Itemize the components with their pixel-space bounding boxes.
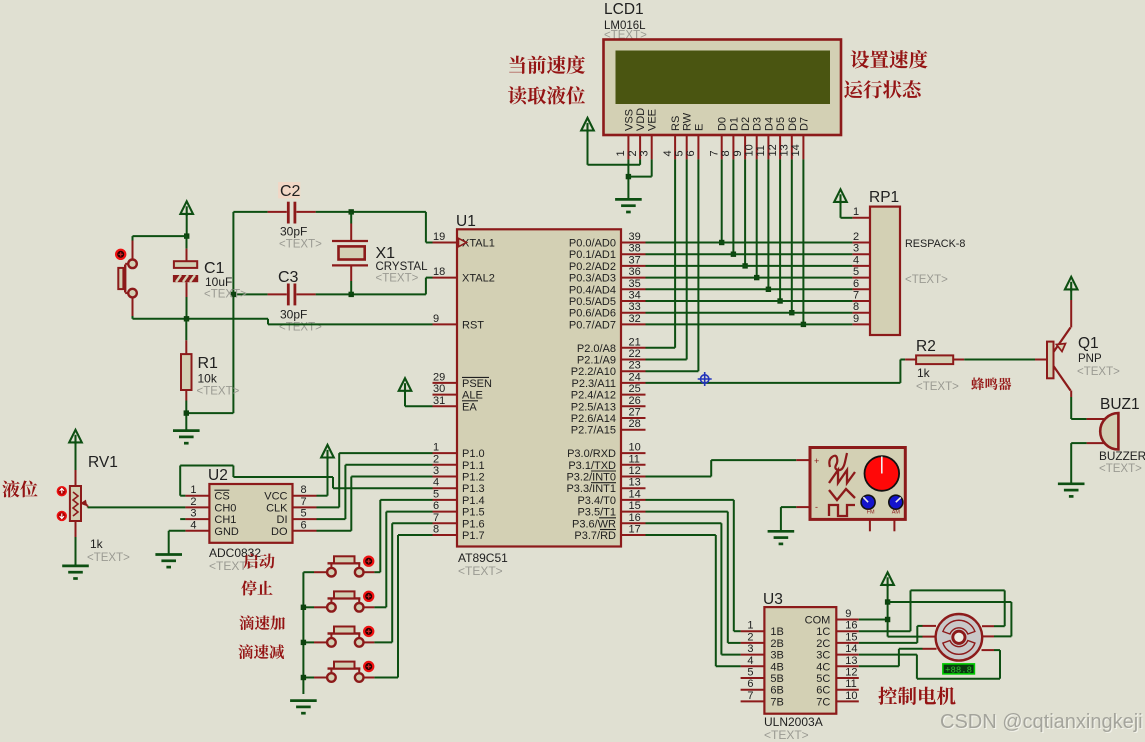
generator main knob <box>865 456 900 491</box>
svg-text:P3.7/RD: P3.7/RD <box>574 530 616 542</box>
wire U2 DI to U1 P1.1 <box>317 465 433 519</box>
wire LCD D6 to P0.6 bus <box>791 159 793 312</box>
microcontroller U1 body AT89C51 <box>457 229 621 546</box>
svg-text:8: 8 <box>433 524 439 536</box>
svg-text:7: 7 <box>301 496 307 508</box>
svg-text:RST: RST <box>462 319 484 331</box>
svg-text:P0.2/AD2: P0.2/AD2 <box>569 261 616 273</box>
svg-text:P0.1/AD1: P0.1/AD1 <box>569 249 616 261</box>
svg-text:21: 21 <box>629 336 641 348</box>
U1 pin 1 P1.0 stub <box>433 452 458 454</box>
svg-text:P3.3/INT1: P3.3/INT1 <box>566 483 616 495</box>
svg-text:12: 12 <box>767 144 779 156</box>
svg-text:<TEXT>: <TEXT> <box>1077 366 1120 378</box>
svg-text:15: 15 <box>845 631 857 643</box>
svg-text:DO: DO <box>271 526 288 538</box>
svg-text:<TEXT>: <TEXT> <box>764 728 809 742</box>
wire LCD VDD to power <box>588 128 641 165</box>
power arrow U2 VCC <box>321 445 334 460</box>
U3 pin 12 5C stub <box>816 667 859 686</box>
svg-text:4: 4 <box>662 150 674 156</box>
svg-text:FM: FM <box>867 510 875 516</box>
node R1 bottom junction <box>184 410 189 415</box>
U1 pin 33 P0.6/AD6 stub <box>621 312 646 314</box>
svg-text:RV1: RV1 <box>88 454 118 471</box>
svg-text:15: 15 <box>629 500 641 512</box>
U1 pin 29 PSEN stub <box>433 382 458 384</box>
U3 pin 5 5B stub <box>741 667 784 686</box>
svg-text:P1.0: P1.0 <box>462 448 485 460</box>
wire R2 to Q1 base <box>964 359 1035 361</box>
wire LCD D2 to P0.2 bus <box>744 159 746 266</box>
U1 pin 16 P3.6/WR stub <box>621 522 646 524</box>
wire button qidong to U1 P1.4 <box>374 500 432 572</box>
svg-text:4: 4 <box>747 655 753 667</box>
wire LCD E to U1 P2.2 <box>646 159 699 371</box>
node C3 junction <box>231 292 236 297</box>
wire LCD VEE to junction <box>628 159 651 176</box>
svg-text:5: 5 <box>853 266 859 278</box>
U2 pin 5 DI stub <box>277 508 317 527</box>
svg-text:1: 1 <box>747 620 753 632</box>
svg-text:3: 3 <box>433 465 439 477</box>
svg-text:COM: COM <box>805 615 831 627</box>
U1 pin 15 P3.5/T1 stub <box>621 511 646 513</box>
wire RV1 top to power <box>75 441 77 486</box>
RP1 pin 8 stub <box>852 301 870 313</box>
svg-text:1B: 1B <box>770 626 783 638</box>
node D6 junction <box>789 310 794 315</box>
svg-text:-: - <box>815 502 818 512</box>
wire U1 P3.5 to U3 2B <box>646 512 741 643</box>
generator sine icon <box>829 453 847 470</box>
label shezhisudu <box>851 50 928 68</box>
svg-text:32: 32 <box>629 313 641 325</box>
power arrow motor <box>881 572 894 587</box>
svg-text:31: 31 <box>433 395 445 407</box>
svg-text:D1: D1 <box>728 117 740 131</box>
wire C2 row to XTAL1 <box>233 212 432 243</box>
U3 pin 15 2C stub <box>816 631 859 650</box>
svg-text:26: 26 <box>629 395 641 407</box>
U1 pin 9 RST stub <box>433 323 458 325</box>
svg-text:D7: D7 <box>798 117 810 131</box>
label duquyewei <box>508 86 585 104</box>
svg-text:16: 16 <box>845 620 857 632</box>
LCD1 pin 14 D7 <box>790 117 810 159</box>
label fengmingqi <box>971 377 1011 390</box>
label yunxingzhuangtai <box>844 80 921 98</box>
U1 pin 2 P1.1 stub <box>433 464 458 466</box>
svg-text:VEE: VEE <box>647 109 659 131</box>
svg-text:CH1: CH1 <box>214 514 236 526</box>
U3 pin 1 1B stub <box>741 620 784 639</box>
svg-text:XTAL2: XTAL2 <box>462 273 495 285</box>
svg-text:ALE: ALE <box>462 390 483 402</box>
wire junction to button top <box>133 236 187 240</box>
wire reset row <box>133 319 433 325</box>
RV1 down marker <box>57 512 66 521</box>
svg-text:2: 2 <box>853 231 859 243</box>
U2 pin 4 GND stub <box>185 519 239 538</box>
svg-text:3: 3 <box>639 150 651 156</box>
U1 pin 32 P0.7/AD7 stub <box>621 323 646 325</box>
generator FM knob <box>861 495 875 515</box>
svg-text:<TEXT>: <TEXT> <box>916 381 959 393</box>
wire button tingzhi to U1 P1.5 <box>374 512 432 608</box>
wire LCD D5 to P0.5 bus <box>779 159 781 301</box>
wire RV1 wiper to U2 CH0 <box>88 506 186 508</box>
svg-text:RW: RW <box>682 112 694 131</box>
wire U3 1C to motor right-top <box>859 590 1005 631</box>
svg-text:VDD: VDD <box>635 108 647 131</box>
wire U2 CLK to U1 P1.0 <box>317 453 433 507</box>
svg-text:D4: D4 <box>763 117 775 131</box>
wire C3 row to XTAL2 <box>233 278 432 295</box>
crystal X1 <box>332 212 428 295</box>
U3 pin 10 7C stub <box>816 690 859 709</box>
svg-text:19: 19 <box>433 231 445 243</box>
svg-text:13: 13 <box>629 477 641 489</box>
svg-text:RS: RS <box>670 116 682 131</box>
wire P0.7 bus U1 to RP1 <box>646 323 853 325</box>
svg-text:30pF: 30pF <box>280 225 307 239</box>
LCD1 pin 10 D3 <box>744 117 764 159</box>
svg-text:EA: EA <box>462 401 477 413</box>
wire EA to power <box>405 391 433 406</box>
generator AM knob <box>889 495 903 515</box>
resistor R1 10k <box>181 319 240 431</box>
svg-text:GND: GND <box>214 526 239 538</box>
node button bus junction <box>301 640 306 645</box>
U1 XTAL1 clock marker <box>459 238 467 246</box>
svg-text:39: 39 <box>629 231 641 243</box>
svg-text:7: 7 <box>747 690 753 702</box>
svg-text:P1.6: P1.6 <box>462 518 485 530</box>
svg-text:<TEXT>: <TEXT> <box>905 274 948 286</box>
svg-text:P0.3/AD3: P0.3/AD3 <box>569 273 616 285</box>
svg-text:12: 12 <box>629 465 641 477</box>
U1 pin 26 P2.5/A13 stub <box>621 405 646 407</box>
svg-text:11: 11 <box>845 678 856 690</box>
svg-text:P2.1/A9: P2.1/A9 <box>577 355 616 367</box>
svg-text:C2: C2 <box>280 183 301 200</box>
U1 pin 11 P3.1/TXD stub <box>621 464 646 466</box>
svg-text:2: 2 <box>747 631 753 643</box>
svg-text:24: 24 <box>629 371 641 383</box>
svg-text:C3: C3 <box>278 269 299 286</box>
LCD1 pin 12 D5 <box>767 117 787 159</box>
capacitor C1 (electrolytic) <box>173 236 247 319</box>
svg-text:38: 38 <box>629 243 641 255</box>
svg-text:5C: 5C <box>816 673 830 685</box>
svg-text:5: 5 <box>674 150 686 156</box>
signal generator body <box>796 448 905 520</box>
svg-text:35: 35 <box>629 278 641 290</box>
label tingzhi <box>241 580 272 595</box>
svg-text:P3.1/TXD: P3.1/TXD <box>568 460 616 472</box>
svg-text:9: 9 <box>853 313 859 325</box>
LCD1 pin 2 VDD <box>627 108 647 160</box>
svg-text:<TEXT>: <TEXT> <box>279 322 322 334</box>
LCD1 pin 6 E <box>685 124 705 160</box>
wire U2 CH1 nub <box>180 518 185 520</box>
node X1 bottom junction <box>349 292 354 297</box>
svg-text:1: 1 <box>190 484 196 496</box>
U1 pin 28 P2.7/A15 stub <box>621 429 646 431</box>
svg-text:U2: U2 <box>208 467 228 484</box>
svg-text:<TEXT>: <TEXT> <box>1099 463 1142 475</box>
node D5 junction <box>777 298 782 303</box>
svg-text:P1.1: P1.1 <box>462 460 485 472</box>
push-button tingzhi <box>303 591 374 611</box>
U3 pin 13 4C stub <box>816 655 859 674</box>
node D3 junction <box>754 275 759 280</box>
svg-text:Q1: Q1 <box>1078 335 1099 352</box>
U1 pin 8 P1.7 stub <box>433 534 458 536</box>
svg-text:<TEXT>: <TEXT> <box>376 273 419 285</box>
U1 pin 37 P0.2/AD2 stub <box>621 265 646 267</box>
svg-text:10k: 10k <box>198 372 218 386</box>
wire U3 2C to motor left-top <box>859 626 923 643</box>
label yewei <box>2 480 37 497</box>
svg-text:P0.4/AD4: P0.4/AD4 <box>569 284 616 296</box>
U3 pin 6 6B stub <box>741 678 784 697</box>
motor speed display <box>943 664 975 675</box>
ground RV1 <box>62 566 89 579</box>
svg-text:16: 16 <box>629 512 641 524</box>
node D7 junction <box>801 322 806 327</box>
U1 pin 34 P0.5/AD5 stub <box>621 300 646 302</box>
node power junction upper <box>885 599 890 604</box>
svg-text:P3.4/T0: P3.4/T0 <box>577 495 616 507</box>
svg-text:AT89C51: AT89C51 <box>458 551 508 565</box>
U1 pin 36 P0.3/AD3 stub <box>621 277 646 279</box>
svg-text:18: 18 <box>433 266 445 278</box>
wire U1 P3.4 to U3 1B <box>646 500 741 631</box>
wire U1 P3.7 to U3 4B <box>646 535 741 666</box>
U1 pin 25 P2.4/A12 stub <box>621 394 646 396</box>
RP1 pin 3 stub <box>852 243 870 255</box>
U1 pin 24 P2.3/A11 stub <box>621 382 646 384</box>
svg-text:R2: R2 <box>916 338 936 355</box>
wire U1 P2.3 to R2 <box>646 360 906 383</box>
wire LCD D7 to P0.7 bus <box>802 159 804 324</box>
LCD1 body LM016L <box>604 40 842 136</box>
svg-text:3B: 3B <box>770 650 783 662</box>
wire Q1 emitter to power <box>1070 288 1072 300</box>
power arrow RP1 <box>834 189 847 204</box>
U1 pin 17 P3.7/RD stub <box>621 534 646 536</box>
svg-text:RESPACK-8: RESPACK-8 <box>905 238 965 250</box>
svg-text:D2: D2 <box>740 117 752 131</box>
button tingzhi marker <box>364 592 373 601</box>
U1 pin 19 XTAL1 stub <box>433 242 458 244</box>
svg-text:P2.3/A11: P2.3/A11 <box>572 378 616 390</box>
svg-text:2: 2 <box>627 150 639 156</box>
label dangqiansudu <box>509 56 585 74</box>
svg-text:CRYSTAL: CRYSTAL <box>376 261 429 273</box>
svg-text:<TEXT>: <TEXT> <box>204 289 247 301</box>
power arrow reset <box>180 201 193 216</box>
wire LCD RW to U1 P2.1 <box>646 159 687 359</box>
wire generator - to ground <box>781 507 796 531</box>
svg-text:5: 5 <box>433 488 439 500</box>
svg-text:<TEXT>: <TEXT> <box>458 564 503 578</box>
label disujian <box>238 644 284 659</box>
push-button qidong <box>303 556 374 576</box>
svg-text:6: 6 <box>433 500 439 512</box>
svg-text:11: 11 <box>755 145 767 156</box>
node power junction COM <box>885 617 890 622</box>
ground under LCD <box>615 199 642 212</box>
driver U3 body ULN2003A <box>764 607 836 714</box>
svg-text:6: 6 <box>747 678 753 690</box>
svg-text:9: 9 <box>433 313 439 325</box>
svg-text:PSEN: PSEN <box>462 378 492 390</box>
U2 pin 2 CH0 stub <box>185 496 236 515</box>
svg-text:<TEXT>: <TEXT> <box>197 386 240 398</box>
svg-text:8: 8 <box>853 301 859 313</box>
svg-text:9: 9 <box>732 150 744 156</box>
node VSS/VEE junction <box>626 174 631 179</box>
label qidong <box>243 553 274 568</box>
U3 pin 4 4B stub <box>741 655 784 674</box>
svg-text:4: 4 <box>853 254 859 266</box>
svg-text:CS: CS <box>214 491 229 503</box>
svg-text:13: 13 <box>779 144 791 156</box>
svg-text:2: 2 <box>433 453 439 465</box>
power arrow Q1 <box>1065 277 1078 292</box>
svg-text:BUZZER: BUZZER <box>1099 449 1145 463</box>
U1 pin 39 P0.0/AD0 stub <box>621 242 646 244</box>
LCD1 pin 3 VEE <box>639 109 659 159</box>
node D1 junction <box>731 252 736 257</box>
svg-text:PNP: PNP <box>1078 353 1102 365</box>
svg-text:P2.5/A13: P2.5/A13 <box>571 401 616 413</box>
svg-text:DI: DI <box>277 514 288 526</box>
wire buzzer bottom to ground <box>1071 443 1086 484</box>
svg-text:X1: X1 <box>376 245 396 262</box>
RP1 pin 4 stub <box>852 254 870 266</box>
U1 pin 5 P1.4 stub <box>433 499 458 501</box>
svg-text:2B: 2B <box>770 638 783 650</box>
wire P0.5 bus U1 to RP1 <box>646 300 853 302</box>
wire U2 GND to ground <box>169 531 186 555</box>
U1 pin 12 P3.2/INT0 stub <box>621 476 646 478</box>
svg-text:ADC0832: ADC0832 <box>209 546 261 560</box>
U3 pin 3 3B stub <box>741 643 784 662</box>
svg-text:3: 3 <box>747 643 753 655</box>
LCD1 pin 9 D2 <box>732 117 752 159</box>
U1 pin 35 P0.4/AD4 stub <box>621 288 646 290</box>
svg-text:7: 7 <box>709 150 721 156</box>
node reset top junction <box>184 233 189 238</box>
svg-text:R1: R1 <box>198 355 219 372</box>
svg-text:23: 23 <box>629 360 641 372</box>
button reset marker <box>116 250 125 259</box>
U1 pin 38 P0.1/AD1 stub <box>621 253 646 255</box>
node button bus junction <box>301 675 306 680</box>
node D2 junction <box>742 263 747 268</box>
svg-text:+88.8: +88.8 <box>945 665 972 675</box>
svg-text:VSS: VSS <box>623 109 635 131</box>
svg-text:6C: 6C <box>816 685 830 697</box>
LCD1 pin 8 D1 <box>720 117 740 159</box>
push-button disujia <box>303 627 374 647</box>
svg-text:D3: D3 <box>752 117 764 131</box>
svg-text:1k: 1k <box>917 366 931 380</box>
wire LCD VSS to ground <box>627 159 629 199</box>
svg-text:1: 1 <box>433 442 439 454</box>
U1 pin 13 P3.3/INT1 stub <box>621 487 646 489</box>
U2 pin 7 CLK stub <box>266 496 316 515</box>
U3 pin 7 7B stub <box>741 690 784 709</box>
wire Q1 collector to buzzer <box>1071 397 1086 419</box>
wire U3 4C to motor left-bottom <box>859 649 923 667</box>
RV1 wiper arrow <box>81 501 87 508</box>
RV1 up marker <box>57 487 66 496</box>
svg-text:U3: U3 <box>763 591 783 608</box>
svg-text:8: 8 <box>720 150 732 156</box>
svg-text:RP1: RP1 <box>869 189 899 206</box>
svg-text:22: 22 <box>629 348 641 360</box>
U2 pin 1 CS stub <box>185 484 229 503</box>
U1 pin 7 P1.6 stub <box>433 522 458 524</box>
button disujia marker <box>364 627 373 636</box>
RP1 pin 7 stub <box>852 290 870 302</box>
U1 pin 3 P1.2 stub <box>433 476 458 478</box>
svg-text:P3.5/T1: P3.5/T1 <box>577 507 616 519</box>
svg-text:30pF: 30pF <box>280 308 307 322</box>
svg-text:P3.2/INT0: P3.2/INT0 <box>566 472 616 484</box>
svg-text:4B: 4B <box>770 661 783 673</box>
wire power to motor right-mid <box>888 602 1012 636</box>
svg-text:27: 27 <box>629 407 641 419</box>
label disujia <box>239 615 285 630</box>
svg-text:6: 6 <box>685 150 697 156</box>
wire P0.2 bus U1 to RP1 <box>646 265 853 267</box>
node button bus junction <box>301 605 306 610</box>
wire LCD D0 to P0.0 bus <box>721 159 723 242</box>
wire LCD D1 to P0.1 bus <box>732 159 734 254</box>
wire P0.1 bus U1 to RP1 <box>646 253 853 255</box>
node D4 junction <box>766 287 771 292</box>
svg-text:1k: 1k <box>90 537 104 551</box>
LCD1 pin 4 RS <box>662 116 682 160</box>
transistor Q1 PNP <box>1035 300 1120 397</box>
svg-text:+: + <box>814 456 819 466</box>
generator bottom pins <box>870 519 895 531</box>
svg-text:LCD1: LCD1 <box>604 1 644 18</box>
wire LCD RS to U1 P2.0 <box>646 159 676 347</box>
svg-text:17: 17 <box>629 524 641 536</box>
LCD1 pin 13 D6 <box>779 117 799 159</box>
svg-text:37: 37 <box>629 254 641 266</box>
node D0 junction <box>719 240 724 245</box>
svg-text:30: 30 <box>433 383 445 395</box>
wire RP1 pin1 to power <box>841 200 853 218</box>
svg-text:P0.6/AD6: P0.6/AD6 <box>569 308 616 320</box>
svg-text:P1.4: P1.4 <box>462 495 485 507</box>
ground buttons <box>290 701 317 714</box>
svg-text:11: 11 <box>629 453 640 465</box>
svg-text:7C: 7C <box>816 696 830 708</box>
svg-text:VCC: VCC <box>264 491 287 503</box>
svg-text:3: 3 <box>190 508 196 520</box>
RP1 pin 6 stub <box>852 278 870 290</box>
U1 pin 22 P2.1/A9 stub <box>621 359 646 361</box>
